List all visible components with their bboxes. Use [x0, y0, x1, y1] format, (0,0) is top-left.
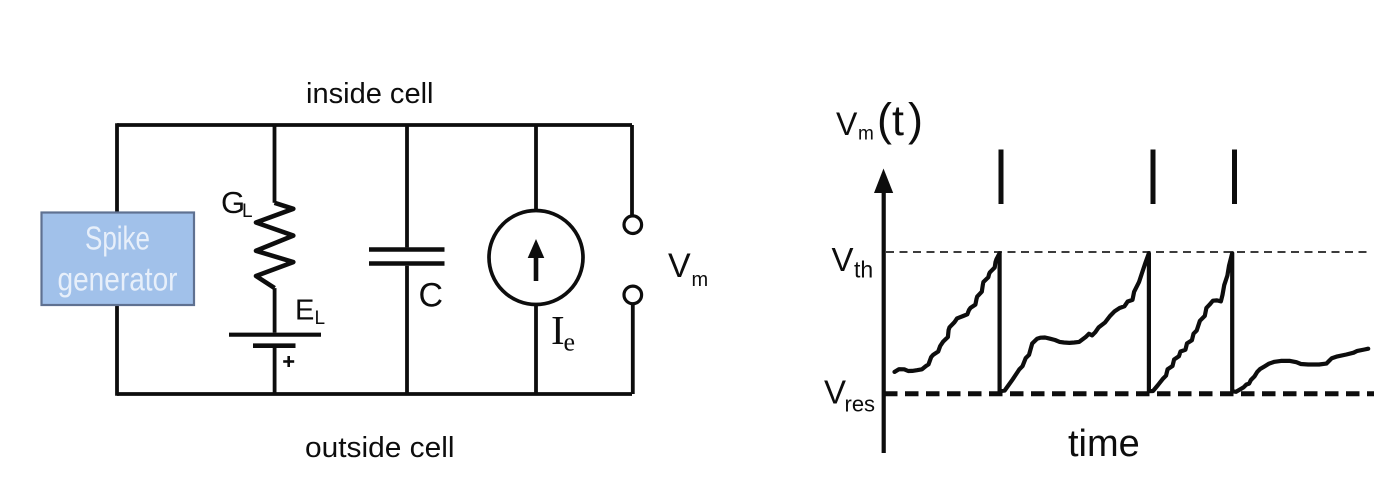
- svg-text:(: (: [877, 94, 892, 145]
- svg-text:m: m: [692, 269, 709, 291]
- svg-text:th: th: [854, 257, 873, 283]
- svg-text:E: E: [295, 295, 314, 327]
- svg-text:t: t: [892, 97, 904, 145]
- svg-text:Spike: Spike: [85, 219, 150, 256]
- svg-text:V: V: [832, 241, 854, 278]
- svg-text:m: m: [858, 124, 874, 145]
- svg-text:C: C: [419, 276, 444, 314]
- svg-text:res: res: [845, 392, 876, 417]
- svg-text:L: L: [315, 308, 326, 329]
- svg-text:e: e: [564, 328, 576, 357]
- svg-text:outside cell: outside cell: [305, 432, 455, 464]
- svg-text:V: V: [824, 373, 846, 410]
- svg-text:generator: generator: [58, 260, 178, 297]
- svg-text:): ): [908, 94, 923, 145]
- svg-text:time: time: [1068, 423, 1140, 465]
- svg-text:inside cell: inside cell: [306, 78, 434, 110]
- svg-text:V: V: [836, 106, 858, 142]
- svg-text:V: V: [668, 247, 691, 285]
- svg-text:L: L: [242, 201, 253, 222]
